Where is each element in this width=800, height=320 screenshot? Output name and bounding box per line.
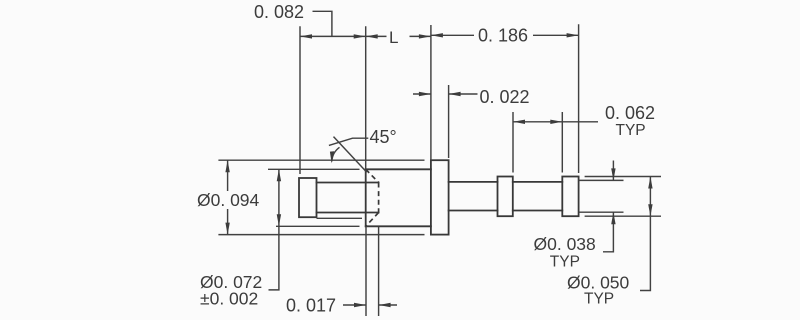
dimension dia 0.072 line	[269, 169, 279, 290]
shaft bottom edge ring1 to ring2	[513, 210, 563, 212]
dimension dia 0.038 top segment	[612, 161, 614, 181]
arrow 0.022 left	[419, 92, 431, 96]
dimension line 0.186 right segment	[533, 34, 579, 36]
arrow 0.062 right	[550, 120, 562, 124]
arrow dia 0.094 down	[225, 223, 229, 235]
svg-text:0. 082: 0. 082	[254, 2, 304, 22]
hidden chamfer vertical	[378, 183, 380, 213]
extension line shaft bottom (dia 0.038)	[579, 211, 624, 213]
svg-text:45°: 45°	[370, 127, 397, 147]
extension line flange bottom (dia 0.094)	[218, 234, 424, 236]
extension line chamfer right (0.017)	[378, 227, 380, 316]
arrow 0.186 left	[431, 33, 443, 37]
extension line ring2 right edge	[578, 24, 580, 173]
dimension line 0.017 left tail	[343, 304, 366, 306]
arrow dia 0.072 up	[277, 169, 281, 181]
shaft top edge ring1 to ring2	[513, 181, 563, 183]
svg-text:TYP: TYP	[550, 254, 580, 271]
arrow dia 0.050 up	[648, 177, 652, 189]
hidden chamfer top diagonal	[366, 169, 379, 182]
cap bottom extension line	[317, 217, 363, 219]
dimension line 0.082	[300, 35, 366, 37]
extension line flange left edge	[430, 25, 432, 160]
arrow 0.017 right	[379, 303, 391, 307]
arrow L left	[366, 34, 378, 38]
svg-text:±0. 002: ±0. 002	[200, 289, 258, 309]
dimension line 0.186 left segment	[431, 34, 474, 36]
extension line ring1 right edge	[512, 112, 514, 173]
extension line ring bottom (dia 0.050)	[585, 215, 661, 217]
extension line body left edge	[365, 26, 367, 169]
svg-text:TYP: TYP	[584, 290, 614, 307]
shaft top edge flange to ring1	[449, 181, 498, 183]
extension line body top (dia 0.072)	[268, 168, 360, 170]
arrow L right	[419, 34, 431, 38]
arrow 0.082 right	[354, 34, 366, 38]
extension line ring top (dia 0.050)	[585, 176, 661, 178]
neck bottom edge	[317, 212, 379, 214]
dimension dia 0.094 top segment	[227, 160, 229, 191]
dimension dia 0.038 bottom segment with leader	[603, 212, 613, 252]
svg-text:0. 062: 0. 062	[605, 103, 655, 123]
svg-text:0. 186: 0. 186	[478, 26, 528, 46]
neck top edge (dia 0.038)	[317, 182, 379, 184]
dimension dia 0.050 line with leader	[640, 177, 650, 291]
leader 0.082	[313, 11, 332, 36]
dimension line 0.022 left (outside)	[413, 93, 431, 95]
extension line flange top (dia 0.094)	[218, 159, 424, 161]
arrow dia 0.038 up-pointing (bottom)	[611, 212, 615, 224]
svg-text:Ø0. 094: Ø0. 094	[197, 190, 260, 210]
45 degree arc arrow	[332, 147, 340, 161]
arrow dia 0.072 down	[277, 214, 281, 226]
dimension line 0.017 right tail	[379, 304, 397, 306]
dimension line 0.022 right tail	[449, 93, 478, 95]
arrow dia 0.038 down-pointing (top)	[611, 168, 615, 180]
extension line chamfer left (0.017)	[365, 226, 367, 316]
svg-text:0. 022: 0. 022	[480, 87, 530, 107]
flange (dia 0.094, width 0.022)	[431, 160, 449, 234]
svg-text:TYP: TYP	[616, 122, 646, 139]
ring 2 (dia 0.050)	[562, 177, 578, 217]
dimension line 0.062	[513, 121, 598, 123]
body bottom edge	[366, 225, 431, 227]
extension line shaft top (dia 0.038)	[579, 179, 624, 181]
extension line body bottom (dia 0.072)	[276, 225, 360, 227]
arrow dia 0.094 up	[225, 160, 229, 172]
hidden chamfer bottom diagonal	[366, 213, 379, 227]
body left edge	[365, 169, 367, 226]
arrow 0.022 right	[449, 92, 461, 96]
svg-text:0. 017: 0. 017	[286, 295, 336, 315]
svg-text:L: L	[389, 28, 398, 47]
arrow 0.062 left	[513, 120, 525, 124]
arrow 45 degree arc tip	[330, 151, 334, 163]
45 degree leader	[329, 138, 368, 145]
dimension line L right segment	[410, 35, 431, 37]
dimension line L left segment	[366, 35, 387, 37]
pin end cap (left, dia 0.050)	[299, 178, 317, 217]
extension line ring2 left edge	[561, 112, 563, 173]
arrow 0.082 left	[300, 34, 312, 38]
extension line cap left edge	[299, 26, 301, 174]
shaft bottom edge flange to ring1	[449, 210, 498, 212]
svg-text:Ø0. 038: Ø0. 038	[534, 234, 596, 254]
arrow 0.186 right	[567, 33, 579, 37]
arrow dia 0.050 down	[648, 204, 652, 216]
body top edge (dia 0.072)	[366, 168, 431, 170]
45 degree chamfer construction diagonal	[334, 137, 367, 173]
ring 1 (dia 0.050)	[498, 177, 513, 217]
dimension dia 0.094 bottom segment	[227, 209, 229, 235]
arrow 0.017 left	[354, 303, 366, 307]
extension line flange right edge	[448, 85, 450, 158]
